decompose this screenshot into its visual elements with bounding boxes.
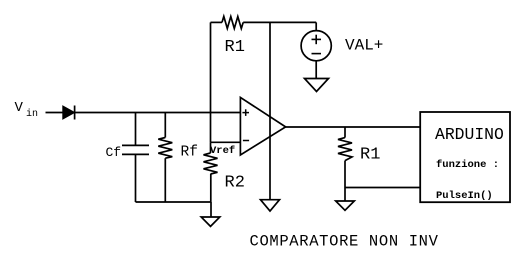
op-amp U1 (240, 97, 285, 155)
ground (201, 217, 220, 226)
wire (46, 112, 63, 114)
wire (75, 112, 241, 114)
svg-text:ARDUINO: ARDUINO (435, 125, 504, 144)
svg-text:in: in (26, 108, 38, 120)
wire (210, 113, 212, 143)
wire (210, 202, 212, 217)
wire (210, 174, 212, 202)
resistor R1 (222, 16, 245, 57)
wire (210, 22, 212, 112)
wire (315, 61, 317, 79)
svg-text:VAL+: VAL+ (345, 37, 383, 55)
svg-text:R2: R2 (225, 173, 245, 192)
svg-text:R1: R1 (225, 38, 245, 57)
ground (336, 201, 355, 210)
wire (136, 201, 212, 203)
wire (344, 161, 346, 201)
wire (211, 21, 223, 23)
wire (269, 22, 271, 199)
svg-text:COMPARATORE NON INV: COMPARATORE NON INV (250, 232, 439, 250)
svg-text:V: V (15, 100, 24, 116)
wire (345, 187, 420, 189)
voltage source VAL+ (301, 31, 383, 61)
ground (261, 200, 280, 211)
wire (285, 126, 420, 128)
svg-text:funzione :: funzione : (436, 159, 499, 171)
svg-text:Vref: Vref (210, 145, 235, 157)
wire (211, 141, 241, 143)
wire (210, 142, 212, 153)
node Vin (15, 100, 39, 120)
wire (344, 127, 346, 138)
svg-text:R1: R1 (360, 145, 380, 164)
capacitor Cf (106, 113, 150, 203)
ground (305, 79, 329, 92)
svg-text:Rf: Rf (181, 145, 198, 161)
resistor R2 (204, 153, 245, 192)
svg-text:PulseIn(): PulseIn() (436, 190, 493, 202)
diode D1 (63, 106, 75, 120)
svg-text:Cf: Cf (106, 145, 122, 160)
resistor Rf (158, 113, 198, 203)
resistor R1 (right) (338, 138, 380, 165)
wire (315, 22, 317, 31)
wire (243, 21, 316, 23)
Arduino block U2 (420, 112, 510, 202)
